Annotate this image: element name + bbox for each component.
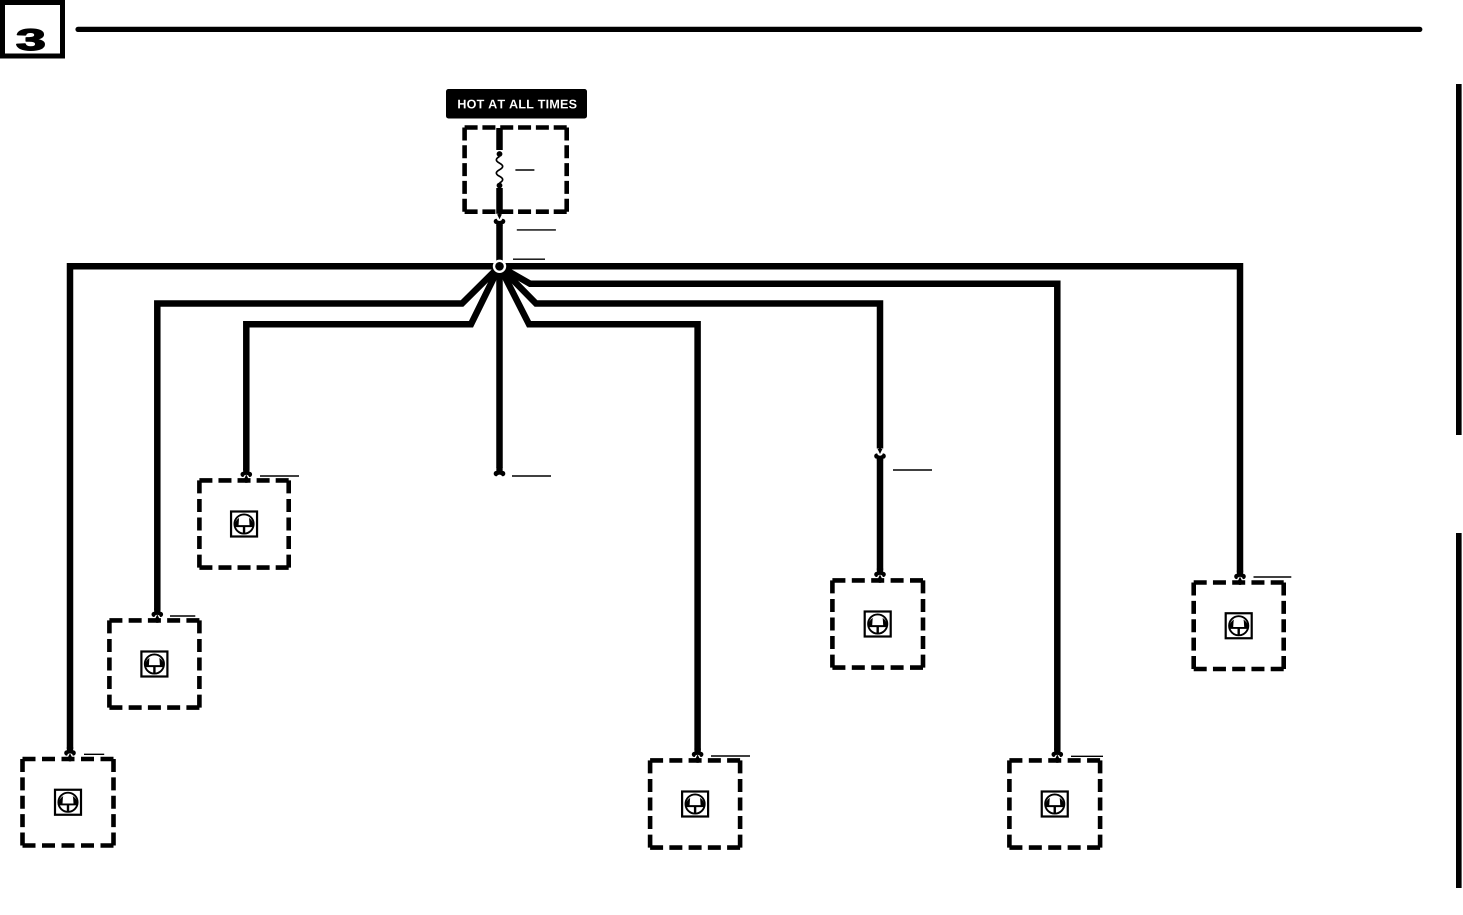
lamp box 1 (dashed)	[23, 757, 114, 762]
inline connector label	[893, 469, 932, 471]
lamp symbol 2	[141, 652, 167, 677]
lamp box 6 (dashed)	[1009, 758, 1100, 763]
lamp 1 label	[84, 753, 104, 755]
wire branch to lamp 2	[157, 266, 499, 610]
fuse box (dashed)	[465, 125, 567, 130]
splice label	[513, 258, 545, 260]
wire stub below splice	[496, 266, 503, 468]
fuse element	[496, 128, 502, 214]
connector at lamp 5	[694, 748, 700, 753]
fuse value label	[515, 169, 534, 171]
lamp symbol 7	[1226, 613, 1252, 638]
lamp symbol 6	[1042, 792, 1068, 817]
connector at lamp 4	[877, 568, 883, 573]
page number box	[3, 3, 63, 57]
lamp box 7 (dashed)	[1194, 580, 1284, 585]
main bus wire: left end down to lamp 1, right end down to lamp 7	[70, 266, 1240, 749]
lamp 5 label	[711, 755, 750, 757]
wire label	[517, 229, 556, 231]
lamp box 5 (dashed)	[650, 758, 740, 763]
right margin bar top	[1456, 84, 1462, 435]
wire branch to inline connector (lamp 4)	[500, 266, 881, 448]
wire branch to lamp 5	[500, 266, 698, 750]
connector at lamp 6	[1054, 748, 1060, 753]
open wire end below splice	[496, 468, 502, 473]
lamp box 3 (dashed)	[199, 478, 288, 483]
page number 3	[17, 29, 44, 50]
right margin bar bottom	[1456, 533, 1462, 888]
lamp 2 label	[170, 615, 195, 617]
lamp 7 label	[1254, 576, 1292, 578]
lamp 6 label	[1071, 755, 1103, 757]
lamp box 4 (dashed)	[832, 578, 923, 583]
connector at lamp 3	[243, 468, 249, 473]
wire inline connector to lamp 4	[877, 459, 884, 570]
open end label	[512, 475, 551, 477]
lamp box 2 (dashed)	[109, 618, 199, 623]
HOT AT ALL TIMES label	[446, 89, 587, 119]
lamp symbol 4	[865, 612, 891, 637]
wire fuse to splice	[496, 224, 503, 266]
connector below fuse	[498, 210, 500, 214]
lamp symbol 3	[231, 512, 257, 537]
connector at lamp 7	[1237, 571, 1243, 576]
wire branch to lamp 3	[246, 266, 499, 470]
lamp symbol 1	[55, 790, 81, 815]
splice junction node	[493, 260, 506, 273]
header rule	[78, 27, 1420, 32]
inline connector on branch 4	[879, 445, 881, 449]
connector at lamp 2	[154, 608, 160, 613]
connector at lamp 1	[67, 747, 73, 752]
lamp 3 label	[260, 475, 299, 477]
lamp symbol 5	[682, 792, 708, 817]
wire branch to lamp 6	[500, 266, 1058, 750]
